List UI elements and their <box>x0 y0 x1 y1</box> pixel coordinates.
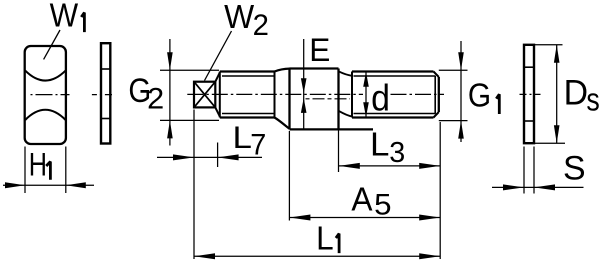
svg-text:d: d <box>371 77 390 119</box>
svg-text:W: W <box>224 0 254 35</box>
svg-text:W: W <box>50 0 79 34</box>
svg-text:3: 3 <box>389 137 405 169</box>
svg-text:s: s <box>586 82 599 118</box>
svg-text:L: L <box>370 126 389 163</box>
svg-text:7: 7 <box>250 129 266 161</box>
svg-text:2: 2 <box>253 9 269 42</box>
svg-text:L: L <box>316 219 334 257</box>
svg-text:5: 5 <box>374 188 391 221</box>
svg-text:D: D <box>564 74 588 113</box>
svg-text:G: G <box>468 77 491 114</box>
svg-text:A: A <box>351 180 372 218</box>
svg-text:E: E <box>309 32 330 69</box>
svg-text:2: 2 <box>147 83 164 115</box>
svg-text:H: H <box>29 147 47 183</box>
svg-text:L: L <box>232 120 251 155</box>
svg-text:S: S <box>563 149 586 187</box>
